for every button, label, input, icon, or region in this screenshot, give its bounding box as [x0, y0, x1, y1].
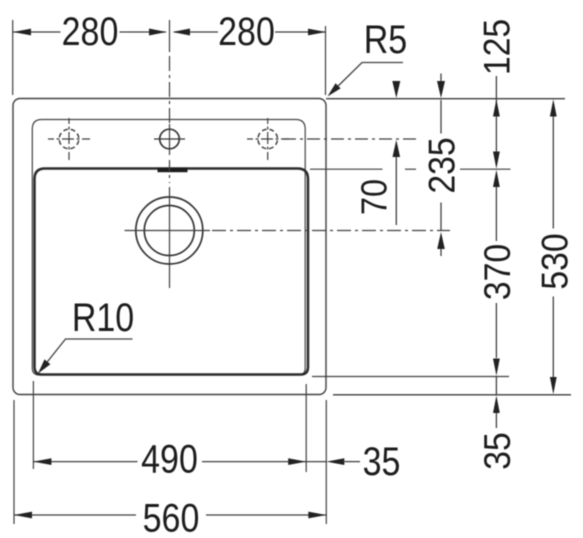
dim 370 bottom arrow: [493, 359, 500, 376]
drain crosshair horizontal: [125, 230, 211, 232]
faucet hole right: [247, 118, 289, 160]
R5 leader: [331, 63, 403, 94]
dim 70 bottom arrow: [393, 140, 401, 157]
sink bottom extension right: [333, 394, 571, 396]
dim 370 top arrow: [493, 170, 500, 187]
dim 235 bottom arrow: [437, 232, 445, 249]
sink inner rim: [32, 120, 305, 376]
dim 490 line: [33, 461, 137, 463]
dim 235 line: [440, 100, 442, 134]
dim 70 tail: [395, 157, 397, 225]
dim 490 extension line right: [305, 384, 307, 472]
dim 490 right arrow: [288, 458, 306, 465]
svg-text:370: 370: [476, 244, 518, 300]
arrow 280 right end: [308, 29, 326, 36]
dim line 280+280: [13, 31, 326, 33]
dim 235 top arrow: [437, 81, 445, 98]
dim 530 top arrow: [550, 99, 557, 116]
dim 560 left arrow: [14, 512, 32, 519]
dim 490 extension line left: [32, 381, 34, 469]
dim 490 left arrow: [33, 458, 51, 465]
svg-text:490: 490: [141, 437, 198, 481]
bowl bottom extension right: [312, 376, 509, 378]
svg-text:R5: R5: [364, 18, 407, 62]
dim 560 extension line left: [13, 400, 15, 524]
svg-text:35: 35: [476, 432, 518, 470]
drain centerline extension: [212, 230, 450, 232]
R10 leader arrow: [38, 359, 50, 373]
dim 530 bottom arrow: [550, 377, 557, 394]
dim 35 vertical crossing line: [495, 376, 497, 395]
faucet hole left: [48, 118, 90, 160]
drain outer circle: [136, 197, 203, 264]
top edge extension right: [326, 98, 565, 100]
dim 560 right arrow: [308, 512, 326, 519]
R10 leader: [40, 339, 133, 371]
dim 560 line: [14, 514, 136, 516]
svg-text:125: 125: [476, 19, 518, 75]
bowl top extension right: [310, 168, 511, 170]
arrow 280 mid pointing right: [149, 29, 167, 36]
bowl outline: [35, 169, 309, 375]
dim 35 horizontal arrow: [326, 458, 344, 465]
drain inner circle: [144, 206, 194, 256]
svg-text:530: 530: [534, 233, 576, 289]
vertical centerline: [169, 20, 171, 288]
dim 125 line: [495, 76, 497, 152]
dim 530 line: [552, 117, 554, 229]
arrow 280 left end: [13, 29, 31, 36]
overflow slot: [158, 168, 188, 172]
faucet hole center: [154, 129, 185, 149]
dim 35 vertical bottom arrow: [493, 396, 500, 414]
svg-text:235: 235: [421, 137, 463, 193]
svg-text:R10: R10: [72, 296, 134, 340]
dim 125 top arrow: [493, 99, 500, 116]
dim 70 top arrow: [392, 81, 400, 98]
svg-text:35: 35: [363, 440, 401, 484]
sink outer outline: [13, 99, 326, 395]
dim 125 bottom arrow: [493, 152, 500, 169]
dim 280 extension line left: [12, 20, 14, 95]
R5 leader arrow: [328, 83, 341, 96]
svg-text:280: 280: [218, 10, 275, 54]
arrow 280 mid pointing left: [173, 29, 191, 36]
dim 560 extension line right: [325, 400, 327, 524]
dim 370 line: [495, 187, 497, 241]
svg-text:70: 70: [355, 179, 395, 215]
svg-text:560: 560: [143, 496, 200, 538]
dim 280 extension line right: [325, 26, 327, 95]
faucet centerline extension: [283, 138, 416, 140]
svg-text:280: 280: [62, 10, 119, 54]
